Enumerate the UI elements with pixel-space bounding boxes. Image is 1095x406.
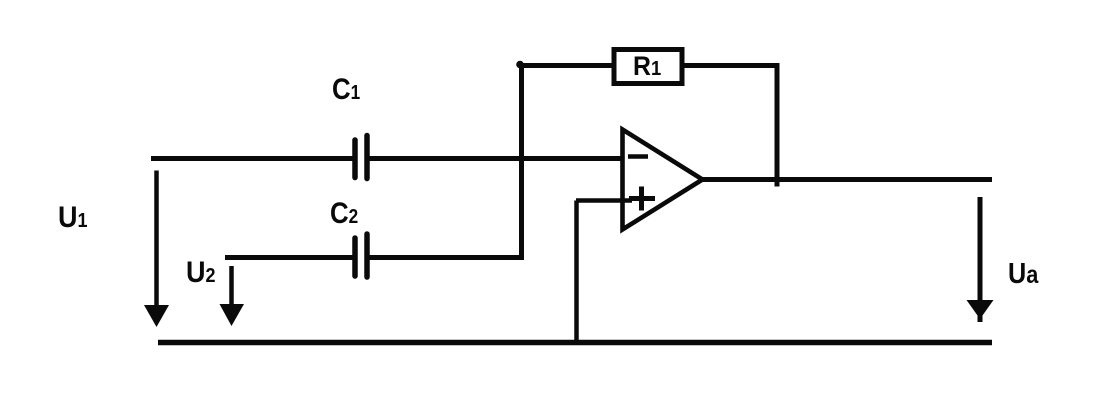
wire: bottom common rail bbox=[158, 340, 992, 346]
op-amp U1 triangle bbox=[623, 130, 703, 230]
svg-text:C2: C2 bbox=[330, 196, 358, 229]
capacitor C1 bbox=[355, 136, 367, 179]
wire: input line 1 right segment (C1 to op-amp inverting input) bbox=[369, 156, 627, 161]
svg-text:U2: U2 bbox=[186, 256, 215, 290]
wire: feedback top left segment (node to R1) bbox=[519, 63, 613, 68]
wire: non-inverting input horizontal bbox=[576, 198, 632, 203]
op-amp non-inverting input plus sign bbox=[629, 187, 655, 211]
U2 source arrow bbox=[220, 266, 245, 326]
wire: non-inverting input vertical down to ground rail bbox=[574, 201, 579, 345]
wire: input line 1 left segment (U1 to C1) bbox=[151, 156, 354, 161]
wire: feedback top right segment (R1 to right vertical) bbox=[684, 63, 780, 68]
wire: input line 2 right segment (C2 to node vertical) bbox=[369, 255, 524, 260]
capacitor C2 bbox=[355, 234, 367, 277]
wire: input line 2 left segment (U2 to C2) bbox=[225, 255, 354, 260]
Ua output arrow bbox=[967, 197, 994, 322]
wire: feedback right vertical down to output bbox=[775, 66, 780, 187]
U1 source arrow bbox=[144, 171, 169, 328]
wire: node vertical x=521 (feedback node down to line 2) bbox=[519, 63, 524, 259]
node A junction dot bbox=[516, 61, 524, 69]
op-amp inverting input minus sign bbox=[628, 154, 648, 159]
svg-text:Ua: Ua bbox=[1008, 256, 1039, 289]
svg-text:U1: U1 bbox=[58, 201, 88, 235]
wire: output line bbox=[700, 177, 992, 182]
svg-text:C1: C1 bbox=[332, 72, 360, 105]
resistor R1 bbox=[614, 50, 682, 84]
